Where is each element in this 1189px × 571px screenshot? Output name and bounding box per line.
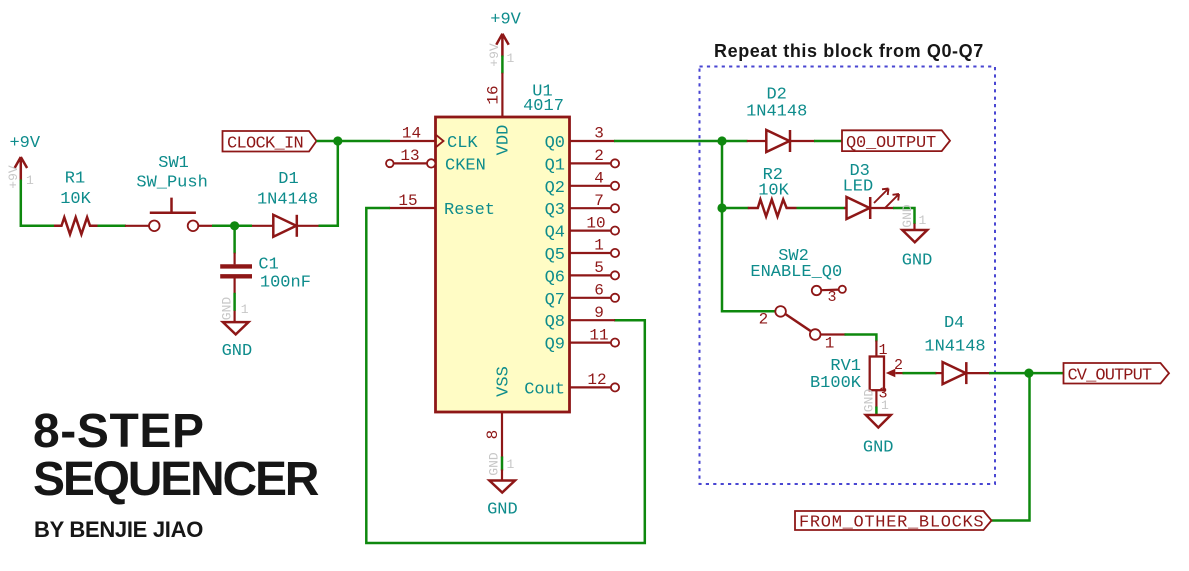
wire R1 to SW1 <box>98 225 127 228</box>
svg-text:B100K: B100K <box>810 374 862 393</box>
svg-text:100nF: 100nF <box>260 274 311 293</box>
svg-text:1: 1 <box>879 342 888 359</box>
wire R2 to D3 <box>797 207 846 210</box>
svg-text:GND: GND <box>487 501 518 520</box>
pin 1 Q5 <box>545 237 620 265</box>
svg-text:CV_OUTPUT: CV_OUTPUT <box>1068 366 1152 385</box>
svg-text:12: 12 <box>587 371 606 389</box>
svg-text:GND: GND <box>902 252 933 271</box>
svg-text:1: 1 <box>507 51 515 66</box>
svg-text:CLOCK_IN: CLOCK_IN <box>227 134 303 153</box>
svg-text:2: 2 <box>759 311 769 329</box>
svg-text:Q3: Q3 <box>545 201 565 220</box>
pin 16 VDD <box>485 73 514 156</box>
svg-text:1N4148: 1N4148 <box>924 337 985 356</box>
svg-text:GND: GND <box>863 438 894 457</box>
pin 3 Q0 <box>545 125 615 153</box>
pin 14 CLK <box>390 125 478 153</box>
diode D4 <box>924 314 990 384</box>
wire SW1 to junction <box>212 225 252 228</box>
svg-text:Q0: Q0 <box>545 134 565 153</box>
svg-text:5: 5 <box>594 259 604 277</box>
wire D1 to CLOCK_IN node <box>319 141 338 226</box>
svg-text:2: 2 <box>594 147 604 165</box>
global label CV_OUTPUT <box>1064 363 1170 385</box>
svg-text:15: 15 <box>398 192 417 210</box>
junction node CV <box>1024 369 1033 378</box>
svg-text:3: 3 <box>827 289 836 306</box>
ground GND (D3) <box>900 204 932 270</box>
svg-text:CKEN: CKEN <box>445 156 486 175</box>
wire D3 to GND <box>893 208 915 224</box>
junction node SW1/D1/C1 <box>230 221 239 230</box>
svg-text:Q1: Q1 <box>545 156 565 175</box>
svg-text:1: 1 <box>594 237 604 255</box>
svg-text:GND: GND <box>862 389 877 413</box>
junction node CLOCK_IN/CLK/D1 <box>333 136 342 145</box>
svg-text:4017: 4017 <box>523 97 564 116</box>
global label CLOCK_IN <box>223 131 317 153</box>
svg-text:R1: R1 <box>65 170 85 189</box>
pin 4 Q2 <box>545 170 620 198</box>
capacitor C1 <box>220 226 311 294</box>
pin 2 Q1 <box>545 147 620 175</box>
wire C1 to GND <box>233 293 236 311</box>
svg-text:+9V: +9V <box>487 43 502 67</box>
svg-text:10K: 10K <box>758 182 789 201</box>
IC U1 4017 body <box>436 83 570 413</box>
svg-text:6: 6 <box>594 282 604 300</box>
pin 5 Q6 <box>545 259 620 287</box>
byline BY BENJIE JIAO <box>34 517 203 542</box>
svg-text:Cout: Cout <box>524 380 565 399</box>
svg-text:Repeat this block from Q0-Q7: Repeat this block from Q0-Q7 <box>714 41 984 61</box>
svg-text:1N4148: 1N4148 <box>746 103 807 122</box>
power +9V left <box>6 134 41 189</box>
svg-text:GND: GND <box>222 342 253 361</box>
svg-text:D1: D1 <box>278 170 298 189</box>
pin 9 Q8 <box>545 304 615 332</box>
wire CLOCK_IN to CLK <box>317 140 391 143</box>
wire RV1 wiper to D4 <box>903 372 937 375</box>
svg-text:1: 1 <box>241 302 249 317</box>
repeat block caption <box>714 41 984 61</box>
pin 10 Q4 <box>545 214 620 242</box>
svg-text:14: 14 <box>402 125 421 143</box>
wire R2 node down to SW2 <box>722 208 776 311</box>
svg-text:8-STEP: 8-STEP <box>33 405 205 458</box>
svg-text:Q6: Q6 <box>545 268 565 287</box>
svg-text:13: 13 <box>400 147 419 165</box>
global label FROM_OTHER_BLOCKS <box>795 511 992 533</box>
wire SW2 to RV1 <box>845 335 877 342</box>
svg-text:1: 1 <box>825 335 835 353</box>
title 8-STEP SEQUENCER <box>33 405 319 506</box>
ground GND (RV1) <box>862 389 894 458</box>
svg-text:1: 1 <box>507 457 515 472</box>
wire +9V to R1 <box>21 180 55 226</box>
repeat block dashed outline <box>700 67 996 485</box>
svg-text:1: 1 <box>919 213 927 228</box>
svg-text:LED: LED <box>843 178 874 197</box>
svg-text:Q5: Q5 <box>545 246 565 265</box>
resistor R1 <box>54 170 98 235</box>
pin 6 Q7 <box>545 282 620 310</box>
svg-text:3: 3 <box>594 125 604 143</box>
svg-text:1N4148: 1N4148 <box>257 191 318 210</box>
svg-text:+9V: +9V <box>490 11 521 30</box>
ground GND (VSS) <box>487 452 518 519</box>
pin 12 Cout <box>524 371 619 399</box>
svg-text:1: 1 <box>26 173 34 188</box>
svg-text:VDD: VDD <box>495 125 514 156</box>
svg-text:9: 9 <box>594 304 604 322</box>
svg-text:ENABLE_Q0: ENABLE_Q0 <box>750 263 842 282</box>
pin 8 VSS <box>484 366 514 457</box>
svg-text:SEQUENCER: SEQUENCER <box>33 453 319 506</box>
svg-text:8: 8 <box>484 430 502 440</box>
ground GND (C1) <box>220 297 253 362</box>
svg-text:Reset: Reset <box>444 201 495 220</box>
svg-text:Q8: Q8 <box>545 313 565 332</box>
svg-text:GND: GND <box>220 297 235 321</box>
svg-text:11: 11 <box>589 326 608 344</box>
wire Q0 to repeat block <box>614 140 722 143</box>
svg-text:C1: C1 <box>258 256 278 275</box>
LED D3 <box>843 162 899 219</box>
pin 15 Reset <box>389 192 495 220</box>
svg-text:1: 1 <box>881 398 889 413</box>
svg-text:BY BENJIE JIAO: BY BENJIE JIAO <box>34 517 203 542</box>
svg-text:Q4: Q4 <box>545 224 565 243</box>
svg-text:10K: 10K <box>60 190 91 209</box>
svg-text:10: 10 <box>586 214 605 232</box>
power +9V (VDD) <box>487 11 522 67</box>
svg-text:VSS: VSS <box>495 366 514 397</box>
svg-text:SW1: SW1 <box>158 154 189 173</box>
svg-text:Q9: Q9 <box>545 336 565 355</box>
pin 13 CKEN <box>386 147 486 175</box>
svg-text:4: 4 <box>594 170 604 188</box>
wire D2 to Q0_OUTPUT <box>814 140 842 143</box>
wire RV1 to GND <box>875 407 878 416</box>
diode D1 <box>252 170 320 237</box>
wire node to R2 <box>722 207 749 210</box>
svg-text:+9V: +9V <box>6 165 21 189</box>
svg-text:Q7: Q7 <box>545 291 565 310</box>
switch SW2 ENABLE_Q0 <box>750 247 846 353</box>
wire node to D2 <box>722 140 748 143</box>
switch SW1 SW_Push <box>125 154 212 231</box>
wire D4 to CV_OUTPUT <box>989 372 1064 375</box>
wire VDD power <box>501 56 504 74</box>
wire Reset feedback from Q8 <box>366 208 645 543</box>
svg-text:CLK: CLK <box>447 134 478 153</box>
svg-text:SW_Push: SW_Push <box>136 174 207 193</box>
global label Q0_OUTPUT <box>842 130 950 153</box>
svg-text:16: 16 <box>485 85 503 104</box>
junction node R2 <box>717 203 726 212</box>
svg-text:GND: GND <box>900 204 915 228</box>
svg-text:+9V: +9V <box>9 134 40 153</box>
svg-text:D4: D4 <box>944 314 964 333</box>
wire Q0 node down to R2 node <box>721 141 724 208</box>
svg-text:FROM_OTHER_BLOCKS: FROM_OTHER_BLOCKS <box>799 514 984 533</box>
svg-text:D2: D2 <box>766 85 786 104</box>
resistor R2 <box>748 166 797 217</box>
diode D2 <box>746 85 815 152</box>
potentiometer RV1 <box>810 341 904 408</box>
wire VSS to GND <box>501 457 504 471</box>
wire FROM_OTHER_BLOCKS to CV node <box>992 373 1030 520</box>
pin 7 Q3 <box>545 192 620 220</box>
svg-text:GND: GND <box>487 452 502 476</box>
pin 11 Q9 <box>545 326 620 354</box>
svg-text:2: 2 <box>894 357 903 374</box>
svg-text:Q0_OUTPUT: Q0_OUTPUT <box>846 134 936 153</box>
svg-text:Q2: Q2 <box>545 179 565 198</box>
junction node Q0 block <box>717 136 726 145</box>
svg-text:7: 7 <box>594 192 604 210</box>
